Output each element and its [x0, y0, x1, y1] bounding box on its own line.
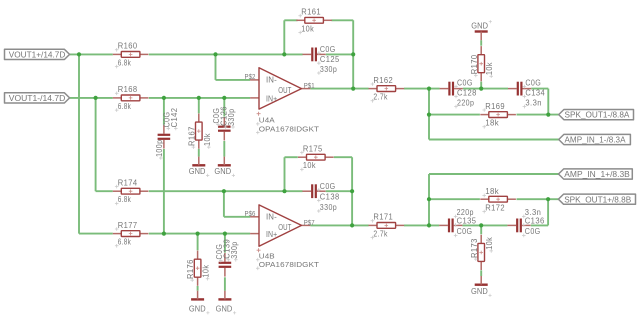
junction IN- jog U4B — [222, 189, 226, 193]
wire IN- jog vertical U4B — [223, 191, 225, 217]
svg-text:C136: C136 — [525, 217, 545, 226]
wire C134 to corner — [531, 88, 548, 90]
svg-text:R171: R171 — [373, 213, 393, 222]
wire R161 left — [284, 19, 297, 21]
wire R176 to GND — [197, 286, 199, 291]
svg-text:C142: C142 — [170, 108, 179, 128]
wire output row to R173 — [480, 225, 482, 234]
wire feedback left vertical U4A — [283, 20, 285, 54]
svg-text:C135: C135 — [457, 217, 477, 226]
svg-text:330p: 330p — [227, 109, 236, 126]
wire feedback left vertical U4B — [284, 157, 286, 191]
junction feedback to output U4B — [350, 223, 354, 227]
net flag AMP_IN_1+/8.3B — [559, 169, 633, 179]
svg-text:6.8k: 6.8k — [118, 58, 132, 67]
svg-text:10k: 10k — [203, 132, 212, 146]
junction node Y — [427, 223, 431, 227]
svg-text:OUT: OUT — [278, 86, 291, 95]
ground below R173 — [471, 276, 492, 297]
svg-text:AMP_IN_1-/8.3A: AMP_IN_1-/8.3A — [565, 135, 626, 145]
capacitor C142 — [155, 108, 179, 160]
resistor R161 — [296, 8, 332, 35]
svg-text:330p: 330p — [320, 65, 337, 74]
resistor R174 — [113, 178, 149, 205]
wire C139 to GND — [224, 277, 226, 290]
svg-text:R168: R168 — [118, 85, 138, 94]
svg-text:GND: GND — [189, 167, 206, 176]
capacitor C135 — [439, 208, 476, 237]
svg-text:IN-: IN- — [266, 76, 277, 85]
wire rail to R167 — [198, 98, 200, 113]
wire VOUT1- down to R174 row — [95, 98, 97, 191]
svg-text:IN-: IN- — [266, 212, 277, 221]
resistor R176 — [186, 251, 210, 286]
op-amp U4A — [245, 68, 320, 135]
svg-text:IN+: IN+ — [266, 94, 278, 103]
wire to R174 — [96, 190, 113, 192]
resistor R173 — [470, 235, 494, 270]
wire U4A out to R162 — [310, 88, 368, 90]
svg-text:P$2: P$2 — [245, 72, 256, 81]
junction C138 right — [350, 189, 354, 193]
capacitor C125 — [303, 45, 340, 75]
ground below C126 — [214, 157, 235, 177]
capacitor C126 — [212, 106, 236, 140]
svg-text:C0G: C0G — [525, 227, 541, 236]
svg-text:2.7k: 2.7k — [373, 93, 388, 102]
wire VOUT1- flag to R168 — [70, 97, 113, 99]
wire R160 to C125 — [149, 53, 303, 55]
svg-text:18k: 18k — [485, 119, 499, 128]
junction R172 left — [427, 197, 431, 201]
svg-text:330p: 330p — [230, 241, 239, 258]
wire to R177 — [79, 233, 113, 235]
net flag VOUT1-/14.7D — [5, 93, 70, 103]
capacitor C136 — [507, 208, 544, 237]
svg-text:220p: 220p — [457, 98, 474, 107]
ground below C139 — [216, 291, 237, 315]
wire R169 to SPK_OUT1- flag — [517, 114, 559, 116]
junction C125 right — [351, 52, 355, 56]
resistor R162 — [369, 76, 405, 103]
svg-text:SPK_OUT1+/8.8B: SPK_OUT1+/8.8B — [564, 194, 631, 204]
junction R172 right — [546, 197, 550, 201]
svg-text:R173: R173 — [470, 238, 479, 258]
svg-text:6.8k: 6.8k — [118, 195, 132, 204]
junction C139 top — [223, 232, 227, 236]
wire feedback right vertical U4A — [352, 20, 354, 88]
wire rail to C126 — [223, 98, 225, 117]
svg-text:R172: R172 — [485, 203, 505, 212]
wire R175 right — [334, 156, 352, 158]
svg-text:10k: 10k — [301, 24, 315, 33]
net flag AMP_IN_1-/8.3A — [559, 134, 631, 144]
svg-text:6.8k: 6.8k — [118, 102, 132, 111]
wire R168 to U4A IN+ — [149, 97, 250, 99]
svg-text:10k: 10k — [202, 264, 211, 278]
junction feedback left U4A — [282, 52, 286, 56]
junction feedback to output U4A — [351, 87, 355, 91]
wire R167 to GND — [198, 149, 200, 157]
junction VOUT1- rail — [94, 96, 98, 100]
svg-text:GND: GND — [214, 167, 231, 176]
op-amp U4B — [245, 205, 320, 270]
svg-text:GND: GND — [471, 21, 488, 30]
svg-text:R162: R162 — [373, 76, 393, 85]
net flag VOUT1+/14.7D — [5, 49, 70, 59]
wire R161 right — [332, 19, 354, 21]
wire IN- jog vertical U4A — [215, 54, 217, 80]
wire IN- jog horizontal U4B — [224, 216, 250, 218]
wire U4B out to R171 — [310, 224, 368, 226]
net flag SPK_OUT1-/8.8A — [559, 110, 634, 120]
svg-text:C138: C138 — [320, 192, 340, 201]
resistor R177 — [113, 221, 149, 248]
junction R176 top — [196, 232, 200, 236]
wire feedback right vertical U4B — [351, 157, 353, 225]
resistor R167 — [187, 114, 211, 149]
capacitor C138 — [302, 182, 339, 213]
capacitor C128 — [440, 78, 477, 108]
wire C125 to feedback node — [326, 53, 353, 55]
wire C126 to GND — [223, 141, 225, 157]
resistor R175 — [298, 144, 334, 171]
wire VOUT1+ down to R177 row — [78, 54, 80, 233]
resistor R160 — [113, 42, 149, 69]
svg-text:R160: R160 — [118, 42, 138, 51]
wire R170 to output row — [480, 82, 482, 89]
capacitor C134 — [508, 78, 545, 108]
wire to R172 — [429, 198, 480, 200]
svg-text:C125: C125 — [320, 55, 340, 64]
wire R177 to U4B IN+ — [149, 233, 250, 235]
svg-text:AMP_IN_1+/8.3B: AMP_IN_1+/8.3B — [564, 169, 630, 179]
svg-text:R167: R167 — [187, 126, 196, 146]
svg-text:C0G: C0G — [457, 78, 473, 87]
junction feedback left U4B — [282, 189, 286, 193]
svg-text:C0G: C0G — [320, 182, 336, 191]
svg-text:330p: 330p — [320, 203, 337, 212]
junction R169 left — [427, 113, 431, 117]
svg-text:GND: GND — [216, 305, 233, 314]
capacitor C139 — [215, 239, 239, 277]
resistor R169 — [480, 102, 516, 129]
wire C138 to feedback right — [326, 190, 352, 192]
wire C128 to C134 — [463, 88, 508, 90]
wire GND to R170 — [480, 40, 482, 46]
svg-text:GND: GND — [189, 305, 206, 314]
svg-text:VOUT1-/14.7D: VOUT1-/14.7D — [9, 93, 66, 103]
svg-text:100p: 100p — [155, 140, 164, 157]
svg-text:R174: R174 — [118, 178, 138, 187]
wire VOUT1- rail to C142 — [163, 98, 165, 125]
junction IN- jog U4A — [213, 52, 217, 56]
svg-text:SPK_OUT1-/8.8A: SPK_OUT1-/8.8A — [565, 110, 630, 120]
ground below R176 — [189, 291, 210, 315]
wire R173 to GND — [480, 270, 482, 276]
wire C142 to R177 row — [163, 149, 165, 234]
wire to AMP_IN_1- flag — [429, 139, 559, 141]
wire R177 row to R176 — [197, 234, 199, 251]
svg-text:R169: R169 — [485, 102, 505, 111]
junction VOUT1+ rail — [77, 52, 81, 56]
wire corner up to R172 row — [547, 199, 549, 225]
svg-text:C128: C128 — [457, 88, 477, 97]
junction node X — [427, 87, 431, 91]
wire R171 to C135 — [404, 224, 439, 226]
wire R162 to C128 — [404, 88, 440, 90]
junction R169 right — [546, 113, 550, 117]
wire R174 to C138 — [149, 190, 303, 192]
svg-text:10k: 10k — [485, 62, 494, 76]
svg-text:18k: 18k — [485, 187, 499, 196]
svg-text:OUT: OUT — [278, 223, 291, 232]
svg-text:2.7k: 2.7k — [373, 229, 388, 238]
svg-text:R161: R161 — [301, 8, 321, 17]
junction R170 bottom — [479, 87, 483, 91]
svg-text:C0G: C0G — [457, 227, 473, 236]
svg-text:R177: R177 — [118, 221, 138, 230]
wire R172 to SPK_OUT1+ flag — [517, 198, 559, 200]
svg-text:OPA1678IDGKT: OPA1678IDGKT — [259, 124, 319, 133]
wire C136 to corner — [531, 224, 548, 226]
svg-text:6.8k: 6.8k — [118, 238, 132, 247]
svg-text:R175: R175 — [303, 144, 323, 153]
junction C142 top — [162, 96, 166, 100]
junction C126 top — [222, 96, 226, 100]
resistor R171 — [369, 213, 405, 240]
wire corner down to R169 row — [547, 89, 549, 115]
svg-text:P$6: P$6 — [245, 209, 256, 218]
svg-text:GND: GND — [471, 287, 488, 296]
svg-text:3.3n: 3.3n — [525, 98, 542, 107]
wire node X down to AMP_IN row — [428, 89, 430, 140]
svg-text:P$1: P$1 — [304, 81, 315, 90]
svg-text:VOUT1+/14.7D: VOUT1+/14.7D — [9, 50, 66, 60]
svg-text:R170: R170 — [470, 54, 479, 74]
wire to AMP_IN_1+ flag — [429, 173, 559, 175]
ground above R170 — [471, 20, 492, 40]
svg-text:R176: R176 — [186, 259, 195, 279]
junction R173 top — [479, 223, 483, 227]
ground below R167 — [189, 157, 210, 177]
junction C142 bottom — [162, 232, 166, 236]
svg-text:P$7: P$7 — [304, 218, 315, 227]
svg-text:C134: C134 — [525, 88, 545, 97]
svg-text:10k: 10k — [303, 161, 317, 170]
resistor R172 — [480, 187, 516, 213]
wire VOUT1+ flag to R160 — [70, 53, 113, 55]
wire R177 row to C139 — [224, 234, 226, 253]
resistor R168 — [113, 85, 149, 112]
svg-text:10k: 10k — [485, 236, 494, 250]
svg-text:C0G: C0G — [525, 78, 541, 87]
wire C135 to C136 — [462, 224, 507, 226]
svg-text:IN+: IN+ — [266, 230, 278, 239]
svg-text:OPA1678IDGKT: OPA1678IDGKT — [259, 260, 319, 269]
junction R167 top — [197, 96, 201, 100]
wire node Y up to AMP_IN_1+ row — [428, 174, 430, 225]
resistor R170 — [470, 46, 494, 81]
wire R175 left — [285, 156, 298, 158]
wire IN- jog horizontal U4A — [216, 79, 251, 81]
wire to R169 — [429, 114, 480, 116]
svg-text:C0G: C0G — [320, 45, 336, 54]
net flag SPK_OUT1+/8.8B — [558, 194, 635, 204]
